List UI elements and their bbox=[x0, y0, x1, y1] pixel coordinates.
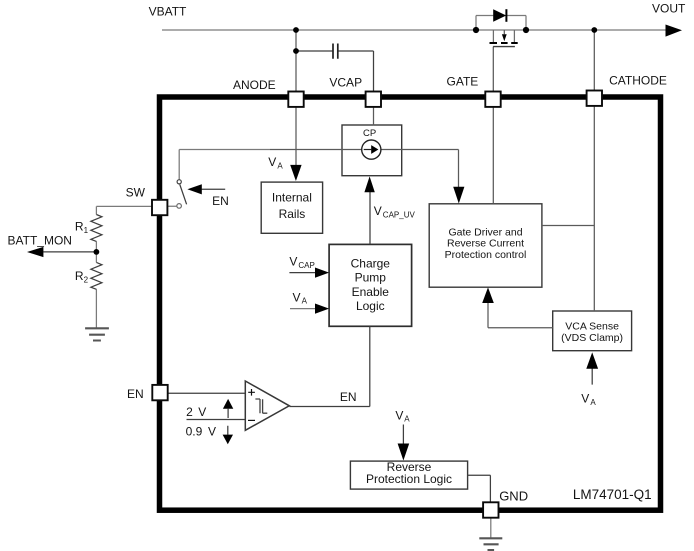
svg-text:V: V bbox=[581, 392, 589, 406]
svg-text:EN: EN bbox=[212, 194, 229, 208]
svg-text:V: V bbox=[198, 405, 206, 419]
svg-text:Charge: Charge bbox=[351, 256, 391, 270]
svg-text:Internal: Internal bbox=[272, 190, 312, 204]
svg-text:Rails: Rails bbox=[279, 207, 306, 221]
svg-text:Protection Logic: Protection Logic bbox=[366, 472, 452, 486]
svg-text:V: V bbox=[293, 290, 301, 304]
svg-text:0.9: 0.9 bbox=[186, 425, 203, 439]
svg-text:LM74701-Q1: LM74701-Q1 bbox=[573, 487, 652, 502]
svg-text:Reverse Current: Reverse Current bbox=[447, 238, 524, 250]
svg-text:VCAP: VCAP bbox=[329, 76, 362, 90]
svg-text:2: 2 bbox=[84, 275, 89, 284]
svg-text:CAP: CAP bbox=[298, 261, 314, 270]
svg-text:R: R bbox=[75, 219, 84, 233]
svg-text:GND: GND bbox=[499, 488, 528, 503]
svg-text:V: V bbox=[289, 255, 297, 269]
svg-text:V: V bbox=[268, 155, 276, 169]
svg-text:Logic: Logic bbox=[356, 299, 385, 313]
svg-text:VBATT: VBATT bbox=[149, 5, 187, 19]
svg-text:EN: EN bbox=[340, 390, 357, 404]
svg-text:V: V bbox=[374, 204, 382, 218]
svg-text:(VDS Clamp): (VDS Clamp) bbox=[561, 332, 623, 344]
svg-text:CATHODE: CATHODE bbox=[609, 74, 667, 88]
svg-text:A: A bbox=[277, 161, 283, 170]
svg-text:SW: SW bbox=[126, 185, 146, 199]
svg-text:GATE: GATE bbox=[447, 75, 479, 89]
svg-text:Pump: Pump bbox=[355, 271, 387, 285]
svg-text:EN: EN bbox=[127, 387, 144, 401]
svg-text:2: 2 bbox=[186, 405, 193, 419]
svg-text:Protection control: Protection control bbox=[445, 249, 527, 261]
svg-text:A: A bbox=[404, 415, 410, 424]
svg-text:VCA Sense: VCA Sense bbox=[565, 321, 619, 333]
svg-text:BATT_MON: BATT_MON bbox=[8, 233, 72, 247]
svg-text:A: A bbox=[590, 398, 596, 407]
svg-text:Gate Driver and: Gate Driver and bbox=[448, 226, 522, 238]
svg-text:V: V bbox=[208, 425, 216, 439]
svg-text:ANODE: ANODE bbox=[233, 78, 276, 92]
svg-text:CAP_UV: CAP_UV bbox=[383, 210, 416, 219]
svg-text:CP: CP bbox=[363, 128, 376, 139]
svg-text:R: R bbox=[75, 269, 84, 283]
svg-text:Enable: Enable bbox=[352, 285, 390, 299]
svg-text:1: 1 bbox=[84, 226, 89, 235]
svg-text:VOUT: VOUT bbox=[652, 2, 686, 16]
svg-text:V: V bbox=[395, 408, 403, 422]
svg-text:A: A bbox=[302, 297, 308, 306]
